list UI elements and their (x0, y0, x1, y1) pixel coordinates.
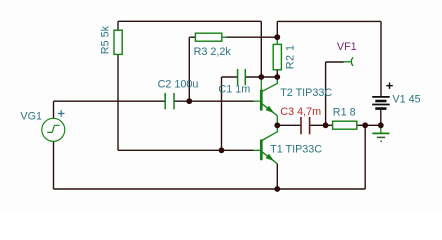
ground symbol at battery minus (380, 125, 382, 133)
transistor T2 collector (262, 77, 278, 92)
capacitor C2 plates (165, 93, 174, 109)
svg-text:VF1: VF1 (337, 41, 357, 53)
transistor T2 base bar (260, 90, 263, 111)
wire T1 base line horizontal (118, 149, 254, 151)
junction node railA/C1-right/T2-base-top (258, 74, 264, 80)
transistor T1 base stub (254, 149, 261, 151)
junction node T1-emitter/bottom-rail (274, 186, 280, 192)
junction node R1/feedback/battery (362, 122, 368, 128)
source VG1 circle (42, 118, 65, 141)
wire C3 right to R1 left (310, 124, 333, 126)
svg-text:C3 4,7m: C3 4,7m (280, 106, 321, 118)
capacitor C1 plates (238, 69, 246, 85)
svg-text:T2 TIP33C: T2 TIP33C (280, 87, 332, 99)
svg-text:C1 1m: C1 1m (218, 84, 250, 96)
resistor R3 leads green stubs (222, 36, 227, 38)
resistor R1 body (333, 121, 357, 129)
junction node R2-bottom/T2-collector (274, 74, 280, 80)
wire R3 right lead to R2 node (227, 36, 278, 38)
battery V1 plus sign (386, 83, 393, 89)
junction node C2/R3/T2-base (186, 98, 192, 104)
wire C2 right to T2 base (174, 100, 254, 102)
transistor T2 base top connection (260, 77, 262, 90)
resistor R2 body (273, 44, 281, 69)
wire VF1 riser and horizontal (326, 62, 344, 125)
wire C1 right lead across to R2 bottom node (245, 76, 277, 78)
transistor T2 emitter (262, 104, 278, 126)
wire R5 bottom lead down to T1 base line (117, 54, 119, 150)
junction node battery-minus/ground (378, 122, 384, 128)
junction node T2-emitter/T1-collector/C3 (274, 122, 280, 128)
resistor R3 body (195, 33, 221, 41)
wire C1 left lead and down to T1 base junction (222, 77, 238, 150)
svg-text:R3 2,2k: R3 2,2k (194, 46, 232, 58)
source VG1 waveform (47, 125, 59, 132)
transistor T1 collector (262, 125, 278, 140)
svg-text:R1 8: R1 8 (333, 106, 356, 118)
wire R5 top lead (117, 21, 119, 30)
resistor R2 top lead (276, 37, 278, 44)
wire feedback: output node down, bottom rail, up to VG1 (54, 125, 366, 189)
transistor T1 emitter (262, 152, 278, 164)
svg-text:T1 TIP33C: T1 TIP33C (270, 144, 322, 156)
wire rail A down segment to C1 node (260, 21, 262, 77)
wire T1 emitter vertical to bottom rail (276, 164, 278, 189)
wire R1 right to battery minus node (357, 124, 381, 126)
wire top rail A from R5 top to bend above T2 base (118, 20, 261, 22)
svg-text:C2 100u: C2 100u (158, 79, 199, 91)
wire VG1 plus up and right to C2 (54, 101, 166, 118)
source VG1 plus sign (58, 110, 64, 116)
wire C2 node up to R3 left (189, 37, 195, 101)
resistor R5 body (114, 30, 122, 54)
wire rail B from R3/R2 node up right and down to battery (277, 21, 381, 96)
battery V1 plates (372, 97, 390, 105)
svg-text:V1 45: V1 45 (392, 94, 420, 106)
wire R2 bottom lead to collector node (276, 70, 278, 77)
svg-text:R2 1: R2 1 (285, 44, 297, 69)
capacitor C3 plates (selected, dark red) (301, 117, 310, 134)
wire emitter node to C3 left (277, 124, 301, 126)
transistor T1 base bar (260, 139, 263, 160)
svg-text:VG1: VG1 (20, 111, 42, 123)
transistor T1 emitter arrow (266, 154, 275, 162)
transistor T2 emitter arrow (266, 106, 275, 114)
junction node C3/VF1/R1 (323, 122, 329, 128)
wire battery bottom stub (380, 110, 382, 125)
junction node R3/R2/railB (274, 34, 280, 40)
probe VF1 tip (344, 61, 351, 63)
junction node R5/C1/T1-base (219, 147, 225, 153)
transistor T2 base stub from left (254, 100, 261, 102)
svg-text:R5 5k: R5 5k (100, 25, 112, 54)
